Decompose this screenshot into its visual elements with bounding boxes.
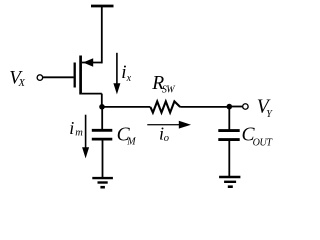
resistor RSW xyxy=(150,101,180,112)
ground (right) xyxy=(219,177,240,187)
wire node B to COUT xyxy=(228,107,230,130)
terminal VX xyxy=(37,75,43,81)
label RSW xyxy=(151,73,176,95)
label io xyxy=(159,123,169,144)
node A junction xyxy=(99,104,105,110)
transistor M1 (PMOS) xyxy=(75,56,102,95)
svg-text:OUT: OUT xyxy=(253,137,274,148)
label ix xyxy=(121,62,131,84)
wire resistor to node B xyxy=(180,106,229,108)
svg-text:M: M xyxy=(126,137,136,148)
wire source to node xyxy=(101,94,103,107)
wire drain to rail xyxy=(101,6,103,63)
capacitor COUT xyxy=(218,131,239,140)
wire gate xyxy=(43,76,74,78)
current arrow im xyxy=(82,115,89,159)
svg-text:o: o xyxy=(164,133,169,144)
svg-text:m: m xyxy=(75,128,83,139)
terminal VY xyxy=(243,104,249,110)
svg-text:i: i xyxy=(69,118,74,138)
ground (left) xyxy=(92,178,113,187)
node B junction xyxy=(227,104,233,110)
label VY xyxy=(257,97,274,120)
label CM xyxy=(117,124,137,147)
label im xyxy=(69,118,83,139)
wire CM to ground xyxy=(102,140,104,178)
svg-text:x: x xyxy=(126,73,132,84)
current arrow ix xyxy=(113,53,120,95)
label VX xyxy=(9,68,25,90)
wire COUT to ground xyxy=(228,141,230,177)
wire node A to CM xyxy=(101,107,103,130)
wire node A to resistor xyxy=(102,106,150,108)
label COUT xyxy=(242,125,274,149)
current arrow io xyxy=(147,121,191,129)
wire node B to terminal VY xyxy=(229,106,242,108)
capacitor CM xyxy=(92,130,113,139)
svg-text:X: X xyxy=(18,78,26,89)
power rail xyxy=(91,5,114,8)
